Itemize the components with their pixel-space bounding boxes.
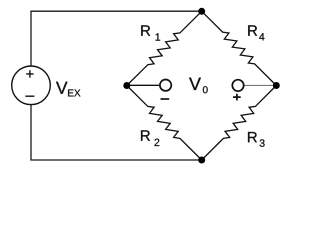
label R4 [248,25,257,35]
label VEX [56,82,68,94]
minus sign below terminal [161,98,170,100]
minus terminal circle [160,80,171,91]
plus sign below terminal [233,94,241,101]
resistor R4 [202,11,277,85]
wire top left loop [31,11,202,66]
resistor R1 [127,11,202,85]
wire plus terminal to right node [244,84,276,86]
node bottom [198,157,205,164]
minus sign in source [25,95,34,97]
resistor R3 [202,86,277,161]
node right [273,82,280,89]
wire bottom left loop [31,105,202,160]
wire left node to minus terminal [127,84,160,86]
voltage source VEX circle [12,66,51,105]
node left [123,82,130,89]
label R2 [141,130,150,140]
label VO [189,78,201,90]
node top [198,8,205,15]
plus terminal circle [232,80,243,91]
resistor R2 [127,86,202,161]
label R3 [248,132,257,142]
plus sign in source [26,70,33,77]
label R1 [141,25,150,35]
